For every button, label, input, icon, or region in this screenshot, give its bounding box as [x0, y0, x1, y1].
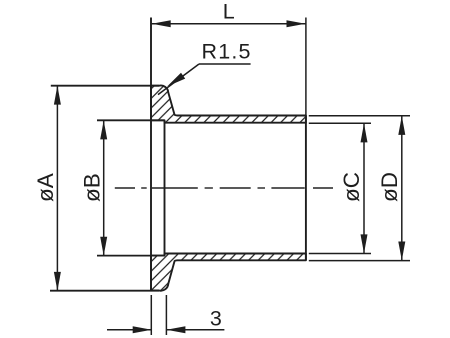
flange bore surface top / øB top extension	[97, 119, 165, 121]
svg-text:L: L	[223, 0, 235, 23]
svg-text:øB: øB	[80, 173, 105, 202]
3-dim right extension line	[165, 295, 167, 335]
flange bottom edge / øA bottom extension	[50, 290, 159, 292]
flange bore surface bottom / øB bottom extension	[97, 255, 165, 257]
svg-text:R1.5: R1.5	[202, 40, 252, 64]
øD bottom extension line	[309, 260, 410, 262]
dimension øA	[33, 86, 61, 291]
svg-text:øA: øA	[33, 173, 58, 202]
svg-text:øC: øC	[339, 172, 364, 202]
L right extension line	[305, 18, 307, 116]
flange upper cross-section (hatched)	[151, 85, 306, 122]
dimension øC	[339, 123, 368, 253]
øC bottom extension line	[309, 253, 371, 255]
dimension øB	[80, 120, 108, 255]
radius label R1.5 with leader	[158, 40, 252, 95]
tube end face	[305, 116, 307, 261]
dimension 3 (flange thickness)	[107, 306, 224, 333]
øC top extension line	[309, 122, 371, 124]
bore step edge	[164, 120, 166, 255]
centerline	[115, 187, 333, 189]
flange lower cross-section (hatched)	[151, 254, 306, 291]
flange top edge / øA top extension	[51, 85, 159, 87]
øD top extension line	[309, 115, 410, 117]
dimension L	[152, 0, 306, 27]
svg-text:øD: øD	[377, 172, 402, 202]
svg-text:3: 3	[210, 306, 222, 330]
dimension øD	[377, 116, 405, 261]
flange left face line (also L and 3 extension line)	[150, 18, 152, 336]
